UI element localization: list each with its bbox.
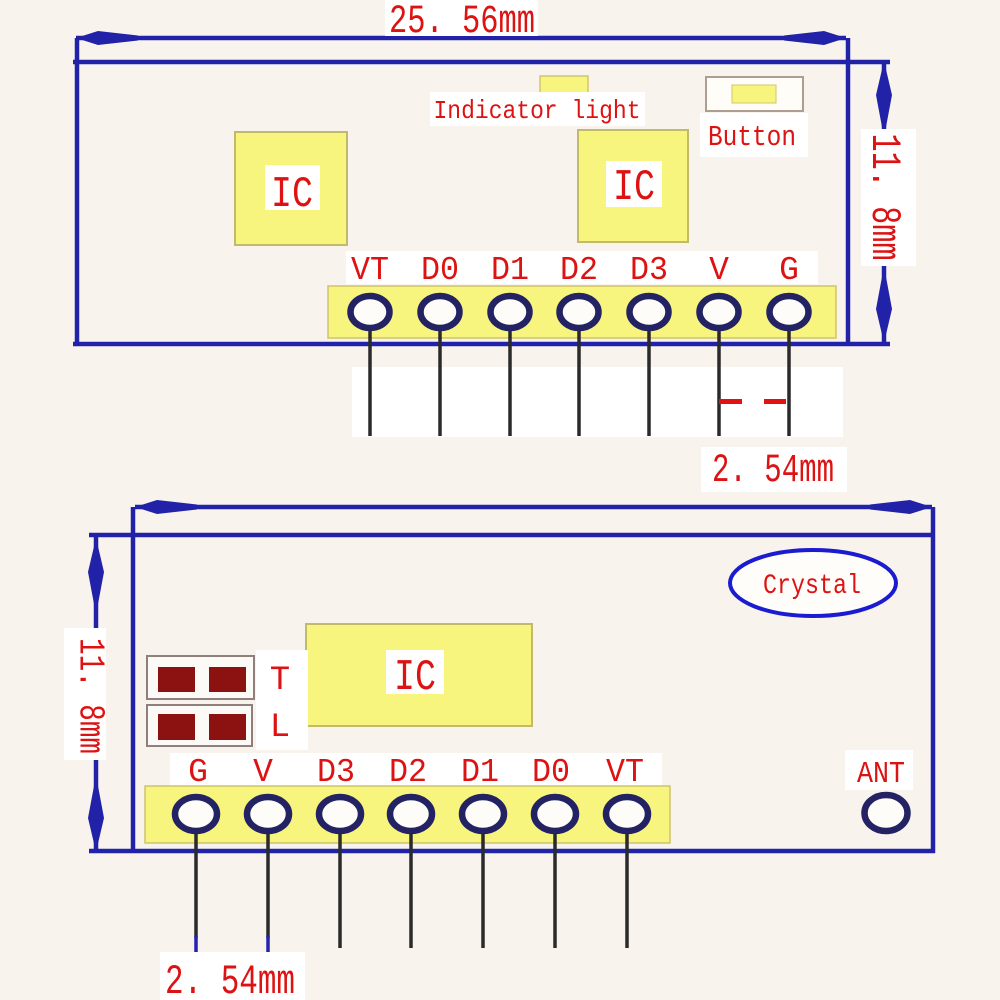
svg-text:IC: IC	[271, 170, 313, 220]
svg-text:D2: D2	[560, 252, 598, 289]
svg-text:T: T	[270, 662, 290, 700]
svg-text:V: V	[253, 754, 273, 791]
svg-text:IC: IC	[394, 653, 436, 703]
svg-text:D0: D0	[421, 252, 459, 289]
svg-text:VT: VT	[606, 754, 644, 791]
svg-text:2. 54mm: 2. 54mm	[165, 958, 295, 1000]
svg-text:D0: D0	[532, 754, 570, 791]
svg-text:25. 56mm: 25. 56mm	[389, 0, 535, 45]
svg-text:Button: Button	[708, 121, 796, 154]
svg-text:D3: D3	[317, 754, 355, 791]
svg-text:Indicator light: Indicator light	[434, 96, 641, 126]
svg-text:Crystal: Crystal	[763, 571, 861, 602]
svg-text:D3: D3	[630, 252, 668, 289]
svg-text:VT: VT	[351, 252, 389, 289]
svg-text:D1: D1	[461, 754, 499, 791]
svg-text:G: G	[779, 252, 799, 289]
svg-text:ANT: ANT	[857, 757, 905, 792]
svg-text:11. 8mm: 11. 8mm	[860, 134, 908, 261]
svg-text:11. 8mm: 11. 8mm	[70, 638, 111, 754]
svg-text:L: L	[270, 709, 290, 747]
svg-text:G: G	[188, 754, 208, 791]
svg-text:D2: D2	[389, 754, 427, 791]
svg-text:D1: D1	[491, 252, 529, 289]
svg-text:2. 54mm: 2. 54mm	[712, 449, 834, 494]
svg-text:V: V	[709, 252, 729, 289]
svg-text:IC: IC	[613, 163, 655, 213]
